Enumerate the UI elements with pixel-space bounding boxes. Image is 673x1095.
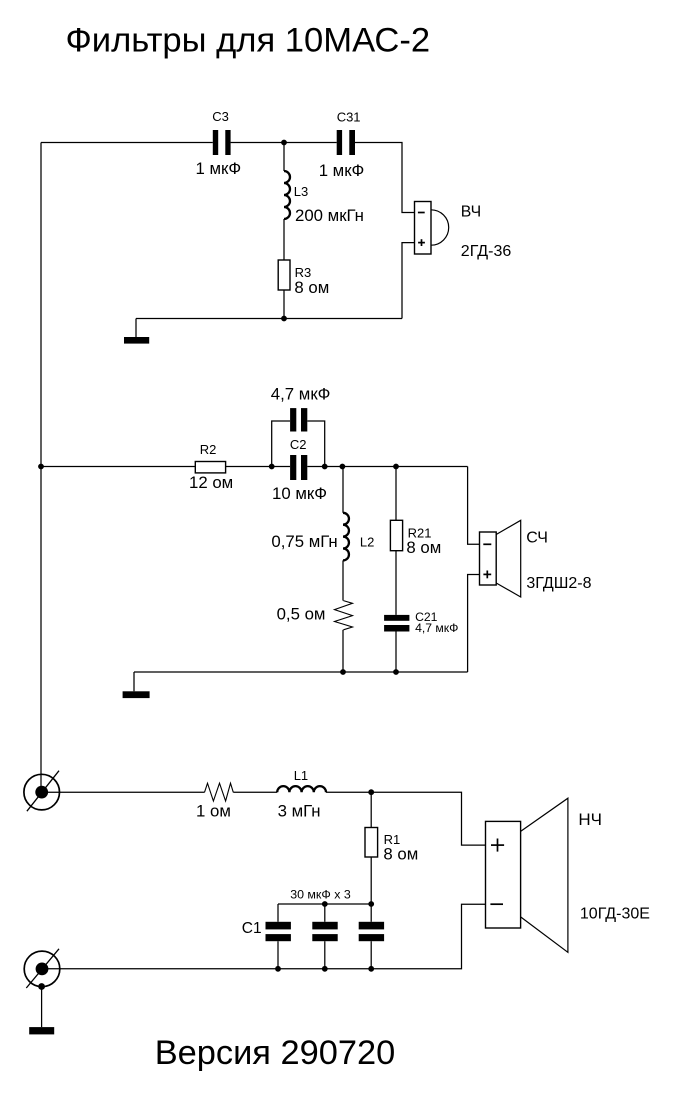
- svg-text:Версия 290720: Версия 290720: [155, 1034, 396, 1072]
- svg-text:C2: C2: [290, 437, 307, 452]
- svg-text:1 мкФ: 1 мкФ: [196, 159, 242, 178]
- svg-text:8 ом: 8 ом: [294, 278, 329, 297]
- svg-text:10ГД-30Е: 10ГД-30Е: [580, 906, 650, 923]
- svg-text:3 мГн: 3 мГн: [278, 801, 321, 820]
- svg-text:Фильтры для 10МАС-2: Фильтры для 10МАС-2: [66, 21, 431, 59]
- svg-text:3ГДШ2-8: 3ГДШ2-8: [526, 575, 591, 592]
- svg-text:0,5 ом: 0,5 ом: [277, 604, 326, 623]
- svg-text:C1: C1: [242, 920, 262, 937]
- svg-text:8 ом: 8 ом: [406, 538, 441, 557]
- svg-text:1 ом: 1 ом: [196, 802, 231, 821]
- svg-text:C31: C31: [337, 110, 361, 125]
- svg-text:8 ом: 8 ом: [383, 844, 418, 863]
- svg-text:R2: R2: [200, 442, 217, 457]
- svg-text:10 мкФ: 10 мкФ: [272, 484, 327, 503]
- svg-text:C3: C3: [212, 109, 229, 124]
- svg-text:L2: L2: [360, 535, 374, 550]
- svg-text:4,7 мкФ: 4,7 мкФ: [415, 621, 458, 635]
- svg-text:30 мкФ x 3: 30 мкФ x 3: [290, 887, 351, 901]
- svg-text:НЧ: НЧ: [578, 810, 602, 829]
- svg-text:1 мкФ: 1 мкФ: [319, 161, 365, 180]
- svg-text:2ГД-36: 2ГД-36: [461, 243, 512, 260]
- svg-text:12 ом: 12 ом: [189, 473, 233, 492]
- svg-text:L1: L1: [294, 768, 308, 783]
- svg-text:200 мкГн: 200 мкГн: [295, 206, 364, 225]
- svg-text:ВЧ: ВЧ: [461, 204, 481, 221]
- svg-text:СЧ: СЧ: [526, 530, 548, 547]
- svg-text:0,75 мГн: 0,75 мГн: [271, 532, 337, 551]
- svg-text:L3: L3: [294, 184, 308, 199]
- svg-text:4,7 мкФ: 4,7 мкФ: [271, 385, 331, 404]
